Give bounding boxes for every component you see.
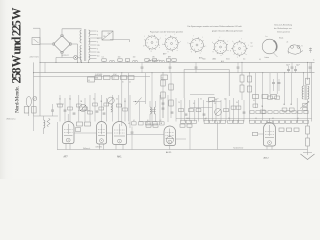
bridge rectifier Gr1 [52,34,72,54]
svg-text:50: 50 [200,98,202,100]
svg-text:s: s [206,46,207,48]
svg-text:AF7: AF7 [163,53,166,56]
svg-text:a: a [159,47,160,49]
transformer Tr1 primary [80,30,82,60]
svg-text:6,3: 6,3 [97,38,99,40]
svg-text:50: 50 [122,82,124,84]
svg-text:k: k [143,45,144,47]
svg-text:hinten gesehen: hinten gesehen [277,30,290,33]
left-mid resistors [58,103,128,114]
label V5 AL4 [264,157,270,160]
hline left-mid b [78,110,90,112]
svg-text:0: 0 [97,49,98,51]
note right 2 [274,27,292,30]
IF2 chain a [161,73,165,118]
svg-text:f: f [248,45,249,47]
svg-text:255: 255 [97,52,100,54]
left-mid caps [64,110,106,114]
wire right edge vertical [311,62,313,121]
svg-text:100: 100 [118,57,121,59]
svg-text:g: g [230,50,231,52]
shelf box pair [121,76,135,80]
tube V3 AH1 [113,122,127,150]
IF transformer coils [150,101,156,122]
svg-text:258 W und 225 W: 258 W und 225 W [9,7,23,84]
label V4 AB2 [166,151,172,154]
wire T2-T3 link [107,132,113,134]
note line 1 [188,25,242,28]
title model 258 W und 225 W [9,7,23,84]
micro labels left of eye [251,42,253,48]
svg-text:f: f [242,39,243,41]
wire T1-T2 link [74,132,97,134]
phone jack symbol [287,41,304,54]
box below bus2 left [161,75,168,80]
antenna coil [44,116,45,134]
wire drop 217.6 [217,122,219,150]
svg-text:0,1: 0,1 [251,46,253,48]
svg-text:50: 50 [59,98,61,100]
wire drop 190 [189,127,191,149]
tube socket view AL4 [230,39,249,59]
svg-text:0,1: 0,1 [129,82,131,84]
svg-text:hinten: hinten [265,56,270,59]
svg-text:4: 4 [97,42,98,44]
svg-text:0,1µF: 0,1µF [113,74,117,76]
variable cap tuner 2 [107,97,114,104]
socket label AF7 b [168,55,171,58]
svg-text:0,1: 0,1 [69,98,71,100]
right chain boxes mid [303,103,307,110]
jack cap mark [309,48,312,54]
parts row below V3 [132,120,165,125]
stub between buses [44,62,46,72]
svg-text:50: 50 [116,98,118,100]
label 220V [30,56,40,59]
hline left-mid a [56,103,64,105]
parts row V4 [146,124,192,127]
svg-text:g: g [151,51,152,53]
wire mains drop [39,42,41,63]
svg-text:f: f [166,35,167,37]
label V1 AF7 [64,155,69,158]
svg-text:2M: 2M [261,106,264,108]
label wellenschalter [83,148,91,150]
svg-text:0,1: 0,1 [253,100,255,102]
wire field left-mid verticals [60,93,130,128]
svg-text:k: k [188,43,189,45]
sparse labels above bus right [202,59,315,62]
tube socket view AB2 [212,37,229,57]
svg-text:0,1: 0,1 [205,118,207,120]
blocking cap [51,104,54,116]
wire antenna drop [39,62,41,116]
wire lower right bus [176,118,312,120]
svg-text:2x: 2x [287,41,289,43]
socket label AF7 a [163,53,166,56]
bus HT [34,72,315,74]
right-mid caps [171,112,246,115]
right mid boxes [253,95,277,99]
ground symbol [301,153,315,160]
label V3 AH1 [117,155,122,158]
wire bridge top [62,29,82,34]
caption sockets [150,31,183,34]
svg-text:K: K [302,45,304,47]
svg-text:AH1: AH1 [117,155,122,158]
svg-text:0,1: 0,1 [272,118,274,120]
svg-text:AZ12: AZ12 [264,157,270,160]
svg-text:(Wellensch.): (Wellensch.) [7,118,16,120]
output transformer tap arrow [300,101,309,108]
wire drop 128.5 [128,73,130,122]
svg-text:f: f [220,37,221,39]
svg-text:f: f [144,36,145,38]
tube V1 AF7 [58,114,81,150]
note right 3 [277,30,290,33]
svg-text:50: 50 [297,118,299,120]
svg-text:220 V 50∿: 220 V 50∿ [30,56,40,59]
svg-text:0,5: 0,5 [93,98,95,100]
svg-text:0,1: 0,1 [124,101,126,103]
svg-text:70: 70 [178,102,180,104]
svg-text:Fassungen von der Unterseite g: Fassungen von der Unterseite gesehen [150,31,183,34]
smoothing caps [272,79,280,91]
svg-text:f: f [194,36,195,38]
svg-text:52µF: 52µF [296,64,300,66]
wire ground mid [140,121,160,123]
wire T4 right [176,138,187,140]
bus aux left [34,75,151,77]
svg-text:g: g [191,51,192,53]
wire lamp row [56,58,81,63]
svg-text:Nord-Mende.: Nord-Mende. [15,86,21,113]
hline right-mid b [206,99,221,103]
voltage selector S1 [102,31,113,40]
svg-text:50µF: 50µF [286,64,290,66]
transformer Tr1 secondary [89,30,90,60]
svg-text:1W 6095: 1W 6095 [96,147,102,149]
ground rail left [34,116,59,131]
svg-text:0,5: 0,5 [243,59,245,61]
svg-text:0,5: 0,5 [255,118,257,120]
note right 1 [274,23,292,26]
wire bridge right [72,44,78,62]
resistor zigzag [47,118,50,127]
svg-text:2M: 2M [80,101,83,103]
label wellensch [7,118,16,120]
svg-text:220: 220 [108,33,111,35]
neon tube left [26,97,31,117]
right-mid resistors [179,96,294,113]
mains switch box [32,38,40,45]
svg-text:6,3: 6,3 [97,56,99,58]
svg-text:s: s [228,50,229,52]
chain right top [240,62,244,100]
svg-text:1M: 1M [100,101,103,103]
svg-text:0,1: 0,1 [259,59,261,61]
tube socket view AH1 [188,36,207,55]
wire T3-T4 link [127,134,165,136]
svg-text:Die Spannungen wurden mit eine: Die Spannungen wurden mit einem Röhrenvo… [188,25,242,28]
tube socket view AF7 [143,32,161,52]
wire drop 152 [151,73,153,126]
shelf box MA [95,76,119,80]
label 24 25C2 [62,55,69,57]
antenna trimmer [33,97,37,101]
hline right-mid a [190,106,213,108]
wire selector output [97,38,130,42]
svg-text:k: k [232,41,233,43]
misc value labels [59,98,299,125]
svg-text:f: f [175,34,176,36]
dial lamp circle [262,36,283,57]
socket label AB2 [213,57,216,60]
svg-text:4: 4 [97,31,98,33]
svg-text:20: 20 [228,118,230,120]
tube V2 AF7 [97,122,107,150]
svg-text:50: 50 [147,120,149,122]
svg-text:AF7: AF7 [64,155,69,158]
svg-text:0,1: 0,1 [102,57,104,59]
svg-text:7000: 7000 [202,59,206,61]
label V2 [96,147,102,149]
wave switch [133,98,146,122]
svg-text:110: 110 [103,36,106,38]
wire bridge left [40,43,52,45]
lower component band [181,118,309,123]
svg-text:a: a [221,55,222,57]
wire far-left vertical [33,62,35,116]
bus heater [40,61,315,63]
osc coil [111,105,112,113]
svg-text:f: f [203,37,204,39]
svg-text:gegen Chassis (Masse) gemessen: gegen Chassis (Masse) gemessen [212,31,243,33]
svg-text:g: g [168,51,169,53]
svg-text:50: 50 [236,102,238,104]
svg-text:0,1: 0,1 [193,103,195,105]
svg-text:25: 25 [214,103,216,105]
grid cap boxes [77,122,91,126]
wire drop 121.8 [121,73,123,126]
svg-text:Tonabnehmer: Tonabnehmer [233,146,244,149]
svg-text:Geräusch-Einstellung: Geräusch-Einstellung [274,23,292,26]
labels electrolytics [286,64,300,66]
IF2 chain b [169,73,173,118]
svg-text:m: m [313,59,315,61]
right chain resistors [306,122,310,156]
bottom wire [57,149,308,151]
transformer taps [90,31,97,59]
svg-text:s: s [246,54,247,56]
hline below seg [190,95,215,102]
chain 249 boxes [247,76,251,92]
output transformer Tr2 [302,62,310,121]
wire seg drop R [228,69,230,96]
svg-text:0,1: 0,1 [113,78,115,80]
svg-text:50: 50 [146,122,148,124]
tube V4 AB2 [164,126,176,150]
wire field right-mid verticals [160,73,297,122]
svg-text:255: 255 [97,45,100,47]
socket label AH1 [199,57,203,60]
svg-text:30 Ω: 30 Ω [226,59,230,61]
svg-text:s: s [180,41,181,43]
right band second row [250,111,308,114]
wire bridge bottom [61,54,63,58]
svg-text:der Skalenlampe von: der Skalenlampe von [274,27,292,30]
left resistors [24,107,36,114]
V5 feed [253,118,270,136]
svg-text:0,2: 0,2 [160,120,162,122]
svg-text:AF7: AF7 [168,55,171,58]
bus segment mid [184,68,229,70]
junction dots [33,62,308,77]
coupling caps between buses [141,62,312,72]
label hinten [265,56,270,59]
wire seg drop L [183,69,185,98]
socket label AL4 [221,60,224,63]
svg-text:AL2/5: AL2/5 [166,151,172,154]
wire mains hook [33,28,40,41]
shelf micro labels [95,74,131,84]
note line 2 [212,31,243,33]
tube socket view AF7 [162,34,181,53]
svg-text:0,1: 0,1 [160,98,162,100]
svg-text:s: s [160,38,161,40]
wire drop 145.5 [145,73,147,104]
tube V5 AL4 [264,123,276,150]
svg-text:50: 50 [251,42,253,44]
svg-text:MA: MA [96,77,99,80]
shelf box b [88,77,95,82]
label tonabnehmer [233,146,244,149]
svg-text:0,5: 0,5 [283,104,285,106]
svg-text:0,1: 0,1 [133,120,135,122]
svg-text:0,2: 0,2 [224,98,226,100]
svg-text:0,5: 0,5 [88,80,90,82]
svg-text:f: f [228,41,229,43]
title maker Nord-Mende [15,86,21,113]
speaker boxes [279,128,299,131]
cap drop near V3 [131,127,134,150]
svg-text:100: 100 [133,57,136,59]
electrolytic caps [287,66,297,73]
svg-text:k: k [212,42,213,44]
svg-text:0,2: 0,2 [128,123,130,125]
svg-text:4: 4 [97,35,98,37]
svg-text:a: a [177,50,178,52]
variable cap tuner 1 [79,104,86,111]
svg-text:24 25C2: 24 25C2 [62,55,69,57]
svg-text:Skala: Skala [279,38,283,40]
svg-text:5000: 5000 [186,118,190,120]
transformer tap labels [97,31,100,58]
svg-text:AB2: AB2 [213,57,216,60]
svg-text:g: g [213,51,214,53]
transformer Tr1 core [84,29,86,61]
svg-text:a: a [200,52,201,54]
component row above heater bus [102,57,177,63]
svg-text:a: a [237,57,238,59]
svg-text:50: 50 [290,104,292,106]
pilot lamp La1 [73,55,77,59]
svg-text:La: La [266,36,268,38]
variable cap 4 [215,109,222,116]
svg-text:3+1W 6095: 3+1W 6095 [95,74,102,76]
svg-text:k: k [162,44,163,46]
svg-text:1W: 1W [152,57,155,59]
transformer bottom leads [82,60,89,62]
svg-text:1M: 1M [160,123,163,125]
